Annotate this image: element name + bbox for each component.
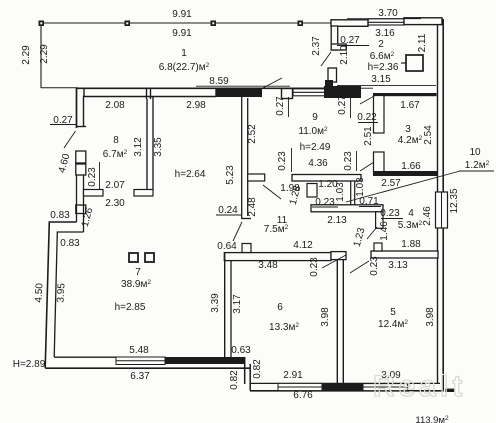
svg-text:38.9м2: 38.9м2 — [121, 279, 151, 290]
svg-text:4.50: 4.50 — [34, 282, 46, 302]
svg-text:h=2.36: h=2.36 — [368, 62, 399, 73]
bottom wall room 7 — [45, 357, 250, 368]
leader top wall door — [257, 78, 282, 91]
corridor wall (0.23/0.71) — [311, 205, 383, 212]
door swing room 11 — [263, 185, 281, 199]
leader 2.37 — [321, 52, 331, 66]
corner nub bottom-right — [445, 389, 455, 392]
svg-text:3.16: 3.16 — [375, 28, 395, 39]
room2 top-right wall bar — [404, 18, 442, 25]
stub on room 9 left wall — [248, 174, 265, 181]
svg-text:1.03: 1.03 — [335, 182, 346, 202]
svg-text:3.39: 3.39 — [210, 293, 221, 313]
svg-text:0.23: 0.23 — [369, 256, 380, 276]
svg-text:2.07: 2.07 — [105, 180, 125, 191]
svg-text:4.12: 4.12 — [293, 240, 313, 251]
svg-text:12.4м2: 12.4м2 — [378, 319, 408, 330]
underline 1.2m2 — [459, 170, 494, 172]
svg-text:0.24: 0.24 — [218, 205, 238, 216]
underline 0.24 — [216, 214, 241, 216]
svg-text:6.37: 6.37 — [130, 371, 150, 382]
room 8 right wall foot — [134, 190, 153, 197]
window bottom room 5 — [363, 384, 408, 391]
door swing room6 top — [233, 222, 242, 241]
svg-text:4.36: 4.36 — [308, 158, 328, 169]
room 3 left wall upper — [374, 96, 385, 134]
pier bottom wall — [165, 357, 245, 364]
leader lines — [64, 52, 460, 273]
svg-text:1.67: 1.67 — [400, 100, 420, 111]
svg-text:0.71: 0.71 — [359, 196, 379, 207]
svg-text:8.59: 8.59 — [209, 76, 229, 87]
leader 0.22 room3 — [360, 95, 376, 104]
room2 left wall — [331, 26, 338, 50]
wall segment 175-190 — [76, 175, 78, 222]
room 3 bottom wall — [373, 171, 437, 176]
vline 0.23 left of 4.36 — [291, 148, 293, 172]
leader niche 10 — [346, 171, 460, 202]
svg-text:3.98: 3.98 — [425, 307, 436, 327]
boiler box room 2 — [406, 55, 423, 71]
room 6 top wall — [224, 253, 331, 261]
svg-text:3.17: 3.17 — [232, 294, 243, 314]
svg-text:3.12: 3.12 — [133, 137, 144, 157]
svg-text:4: 4 — [408, 208, 414, 219]
svg-text:2.29: 2.29 — [39, 44, 50, 64]
room 4 bottom wall — [371, 251, 438, 258]
leader 0.23 cap right — [350, 261, 369, 273]
vline 0.27 rot b — [350, 98, 352, 118]
svg-text:12.35: 12.35 — [449, 188, 460, 213]
svg-text:0.23: 0.23 — [315, 197, 335, 208]
wall corner top-left — [77, 88, 325, 128]
room 3 left wall lower — [374, 152, 385, 173]
svg-text:2.08: 2.08 — [105, 100, 125, 111]
jog outer — [45, 222, 76, 368]
svg-text:11.0м2: 11.0м2 — [298, 126, 328, 137]
room2 left wall flange — [331, 44, 346, 50]
leader 1.23 — [367, 227, 377, 239]
window boxes left wall — [76, 151, 86, 163]
right exterior wall — [438, 19, 444, 391]
stub wall above T pier — [328, 68, 337, 82]
svg-text:2.46: 2.46 — [422, 206, 433, 226]
svg-text:0.22: 0.22 — [357, 112, 377, 123]
svg-text:Realt: Realt — [373, 370, 466, 403]
svg-text:2.30: 2.30 — [105, 198, 125, 209]
svg-text:2.57: 2.57 — [381, 178, 401, 189]
svg-text:3: 3 — [405, 124, 411, 135]
vline 0.27 rot a — [288, 97, 290, 117]
cap of divider 5/6 — [331, 252, 346, 260]
underline 0.27 room2 — [337, 45, 369, 47]
room 6 left wall — [225, 252, 231, 358]
room 9 bottom wall (4.36) — [292, 175, 361, 182]
pier bottom wall rooms 6/5 — [322, 383, 363, 391]
svg-text:2.98: 2.98 — [186, 100, 206, 111]
window bottom room 6 — [278, 383, 322, 390]
svg-text:13.3м2: 13.3м2 — [269, 322, 299, 333]
svg-text:h=2.49: h=2.49 — [300, 142, 331, 153]
jog inner — [54, 232, 83, 357]
underline 0.22 — [358, 122, 378, 124]
svg-text:H=2.89: H=2.89 — [13, 359, 46, 370]
svg-text:0.63: 0.63 — [231, 345, 251, 356]
svg-text:0.83: 0.83 — [60, 238, 80, 249]
leader 1.66 room3 — [360, 162, 374, 171]
svg-text:6: 6 — [277, 302, 283, 313]
svg-text:10: 10 — [469, 147, 481, 158]
window right wall — [436, 192, 448, 228]
svg-text:3.70: 3.70 — [378, 8, 398, 19]
step wall x244-250 — [245, 357, 251, 391]
svg-text:2.13: 2.13 — [327, 215, 347, 226]
door square on room4 bottom wall — [374, 243, 382, 251]
svg-text:2.37: 2.37 — [311, 36, 322, 56]
svg-text:0.64: 0.64 — [217, 241, 237, 252]
divider wall rooms 5/6 — [337, 260, 343, 384]
svg-text:0.23: 0.23 — [277, 151, 288, 171]
room2 top-left wall bar — [331, 20, 368, 27]
room 9 left wall — [241, 96, 251, 219]
underline 0.23 room4 — [381, 218, 403, 220]
svg-text:3.48: 3.48 — [258, 260, 278, 271]
svg-text:1.46: 1.46 — [379, 221, 390, 241]
leader 0.23 cap left — [322, 255, 346, 268]
room 8 right wall — [147, 96, 153, 196]
svg-text:0.27: 0.27 — [275, 96, 286, 116]
svg-text:1.03: 1.03 — [355, 177, 366, 197]
svg-text:2.48: 2.48 — [247, 197, 258, 217]
window room 9 top — [293, 89, 325, 96]
svg-text:5.23: 5.23 — [225, 165, 236, 185]
porch post marker centers — [40, 22, 301, 24]
svg-text:6.8(22.7)м2: 6.8(22.7)м2 — [159, 62, 210, 73]
top exterior wall of main house — [76, 88, 324, 128]
underline 0.27 left — [50, 124, 76, 126]
svg-text:9.91: 9.91 — [172, 9, 192, 20]
svg-text:2.52: 2.52 — [247, 124, 258, 144]
window W8 jambs in top wall — [146, 88, 148, 99]
svg-text:7: 7 — [135, 267, 141, 278]
underline 0.71 — [359, 206, 381, 208]
left exterior wall below room 8 — [45, 151, 86, 368]
svg-text:0.27: 0.27 — [337, 95, 348, 115]
svg-text:h=2.64: h=2.64 — [175, 169, 206, 180]
vline 0.23 right of 4.36 — [356, 151, 358, 171]
room2 top window — [368, 19, 404, 25]
small box in top wall (pier 0.27) — [282, 89, 293, 99]
door box room6 top — [242, 244, 251, 253]
svg-text:0.82: 0.82 — [229, 370, 240, 390]
svg-text:3.13: 3.13 — [388, 260, 408, 271]
svg-text:0.23: 0.23 — [87, 167, 98, 187]
svg-text:0.23: 0.23 — [380, 208, 400, 219]
furnace squares room 7 — [129, 253, 138, 262]
svg-text:1: 1 — [181, 48, 187, 59]
svg-text:9.91: 9.91 — [172, 28, 192, 39]
svg-text:9: 9 — [312, 112, 318, 123]
svg-text:8: 8 — [113, 135, 119, 146]
leader left wall door — [64, 131, 76, 148]
svg-text:0.82: 0.82 — [252, 359, 263, 379]
svg-text:3.15: 3.15 — [371, 74, 391, 85]
svg-text:6.76: 6.76 — [293, 390, 313, 401]
svg-text:3.35: 3.35 — [153, 137, 164, 157]
stub wall room8 bottom-left — [84, 190, 104, 197]
svg-text:5.48: 5.48 — [129, 345, 149, 356]
underline 8.59 — [196, 85, 290, 87]
window bottom room 7 — [116, 357, 165, 365]
svg-text:0.23: 0.23 — [309, 257, 320, 277]
svg-text:h=2.85: h=2.85 — [115, 302, 146, 313]
svg-text:2.10: 2.10 — [339, 45, 350, 65]
underline 0.23 corridor — [312, 206, 338, 208]
porch outline room 1 — [41, 23, 331, 88]
porch post markers — [39, 21, 304, 27]
svg-text:2.29: 2.29 — [21, 45, 32, 65]
svg-text:2.11: 2.11 — [417, 33, 428, 52]
dimension underlines — [50, 19, 494, 219]
svg-text:113.9м2: 113.9м2 — [415, 415, 449, 423]
pier in top wall — [216, 88, 262, 97]
room2 inner floor lines — [337, 84, 436, 86]
vline 0.23 left wall — [99, 162, 101, 190]
svg-text:2.91: 2.91 — [283, 370, 303, 381]
svg-text:1.66: 1.66 — [401, 161, 421, 172]
svg-text:0.83: 0.83 — [50, 210, 70, 221]
svg-text:2.51: 2.51 — [363, 126, 374, 146]
door post below room9 wall — [307, 184, 317, 198]
underline 3.70 — [347, 18, 421, 20]
svg-text:0.23: 0.23 — [343, 151, 354, 171]
room 4 left wall — [376, 212, 383, 229]
svg-text:2.54: 2.54 — [423, 125, 434, 145]
svg-text:1.88: 1.88 — [401, 239, 421, 250]
bottom wall rooms 6/5 — [250, 383, 444, 390]
svg-text:5: 5 — [390, 307, 396, 318]
T pier below room 2 — [324, 86, 361, 98]
svg-text:3.95: 3.95 — [56, 282, 68, 302]
room 3 top wall — [373, 93, 437, 96]
room 2 walls — [331, 18, 442, 88]
svg-text:0.27: 0.27 — [340, 35, 360, 46]
svg-text:3.98: 3.98 — [320, 307, 331, 327]
svg-text:2: 2 — [378, 39, 384, 50]
partition x350 — [351, 181, 355, 207]
